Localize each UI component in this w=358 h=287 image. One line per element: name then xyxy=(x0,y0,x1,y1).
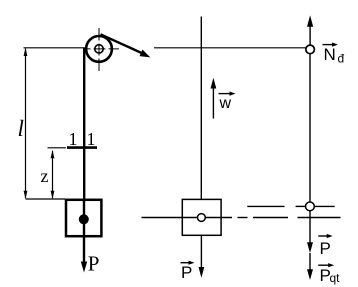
svg-text:qt: qt xyxy=(330,271,341,285)
section line 1-1 xyxy=(67,146,97,149)
right top node circle xyxy=(306,45,315,54)
svg-text:N: N xyxy=(324,45,336,64)
middle block xyxy=(182,199,221,235)
mass center dot xyxy=(79,214,89,224)
wire: top datum line to right circle xyxy=(154,47,306,49)
rope vertical (left) xyxy=(83,48,85,219)
acceleration w arrow xyxy=(211,78,217,119)
N force arrow (right, up) xyxy=(307,15,313,45)
wire: horizontal centerline through middle block xyxy=(142,217,233,219)
wire: bottom extension line at block top level xyxy=(26,198,66,200)
pulley U1 outer wheel xyxy=(86,36,112,62)
right force Pqt arrow (inertia) xyxy=(307,253,313,280)
svg-text:z: z xyxy=(41,166,49,186)
label P vector (right) xyxy=(318,234,332,258)
pulley centerline horizontal xyxy=(84,48,119,50)
pulley centerline vertical xyxy=(98,28,100,71)
rope through block xyxy=(83,199,85,267)
middle figure vertical line xyxy=(200,17,202,200)
right vertical line xyxy=(309,54,311,202)
label P vector (middle) xyxy=(181,261,195,282)
dashed line at dynamic position xyxy=(247,205,334,207)
middle block center circle xyxy=(198,214,206,222)
wire: top extension line from dimension l to pulley xyxy=(24,47,86,49)
label N vector with subscript đ xyxy=(323,43,345,66)
svg-text:w: w xyxy=(219,95,232,112)
middle force P arrow xyxy=(199,235,205,278)
rope diagonal with arrow xyxy=(101,34,151,57)
svg-text:P: P xyxy=(320,239,331,258)
right node circle (dynamic position) xyxy=(306,202,315,211)
wire: z top extension tick xyxy=(48,147,67,149)
svg-text:P: P xyxy=(88,252,100,276)
dimension l line with arrows xyxy=(24,48,28,199)
force P arrowhead (left) xyxy=(81,262,87,273)
block (left mass) xyxy=(66,200,101,236)
svg-text:1: 1 xyxy=(87,129,96,149)
svg-text:l: l xyxy=(18,116,24,141)
dimension z line with arrows xyxy=(51,150,55,199)
label Pqt vector xyxy=(318,263,340,285)
pulley axle inner circle xyxy=(95,45,103,53)
right force P arrow xyxy=(307,211,313,253)
svg-text:P: P xyxy=(181,263,192,282)
svg-text:đ: đ xyxy=(338,52,345,66)
dashed centerline continuation xyxy=(238,217,341,219)
label w vector xyxy=(219,92,236,113)
svg-text:1: 1 xyxy=(69,129,78,149)
